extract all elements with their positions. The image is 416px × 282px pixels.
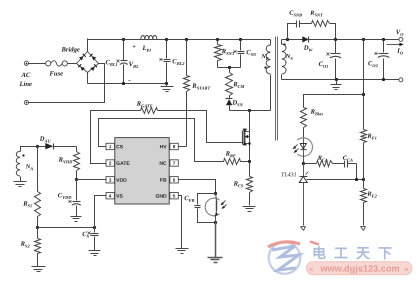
svg-text:AC: AC	[20, 72, 30, 79]
resistor R_F2	[361, 180, 367, 226]
pin numbers U1	[109, 144, 176, 198]
diode D_AU	[38, 143, 77, 150]
svg-text:7: 7	[173, 161, 176, 166]
diode D_SN	[226, 99, 233, 111]
node ref C_CA	[355, 178, 358, 181]
wire clamp to drain node	[230, 110, 271, 112]
polarity dot secondary	[283, 43, 285, 45]
node opto collector	[214, 192, 217, 195]
label N_S	[285, 53, 294, 61]
ground R_S2	[32, 267, 46, 272]
svg-text:www.dgjs123.com: www.dgjs123.com	[319, 264, 399, 274]
capacitor C_VDD	[69, 180, 81, 217]
label C_VDD	[58, 192, 73, 200]
svg-text:3: 3	[109, 178, 112, 183]
node feedback tap on Vo rail	[362, 38, 365, 41]
svg-text:Bridge: Bridge	[60, 46, 79, 53]
capacitor C_FB	[195, 194, 216, 223]
resistor R_S2	[35, 228, 41, 267]
ground C_VDD	[71, 217, 82, 222]
label R_S1	[22, 201, 32, 209]
svg-text:GND: GND	[155, 194, 167, 200]
label N_A	[25, 163, 34, 171]
output terminal Vo	[399, 37, 403, 41]
capacitor C_CA	[333, 161, 357, 168]
label R_SNT	[221, 48, 235, 56]
node opto emitter	[214, 221, 217, 224]
node aux	[36, 145, 39, 148]
node C_BL2 top	[165, 38, 168, 41]
label R_F1	[366, 133, 376, 141]
node C_O2 top	[382, 38, 385, 41]
label Fuse	[49, 71, 63, 78]
resistor R_SNT	[215, 40, 222, 68]
wire VS to pin4	[95, 196, 107, 228]
secondary winding N_S	[282, 40, 287, 80]
node C_BL2 bottom	[165, 82, 168, 85]
label V_BL	[129, 61, 139, 69]
wire secondary ground rail	[282, 79, 400, 81]
node C_SN top	[239, 38, 242, 41]
resistor R_CM	[226, 68, 233, 99]
node gnd rail C_O2	[382, 78, 385, 81]
label C_S	[82, 231, 89, 239]
node C_BL1 top	[122, 38, 125, 41]
label C_BL1	[105, 59, 117, 67]
resistor R_VDD	[74, 147, 80, 180]
ground R_CS	[243, 207, 256, 212]
svg-text:»: »	[404, 265, 409, 274]
wire feedback tap	[363, 40, 365, 130]
wire TL431 ref line	[307, 179, 364, 181]
node divider mid	[362, 178, 365, 181]
resistor R_CA	[304, 161, 333, 167]
svg-text:4: 4	[109, 193, 112, 198]
resistor R_F1	[361, 130, 367, 180]
label C_FB	[184, 195, 194, 203]
label D_AU	[39, 136, 52, 144]
wire gate lead	[236, 142, 243, 144]
label R_CS	[233, 181, 244, 189]
label C_SNB	[289, 10, 302, 18]
svg-text:8: 8	[173, 144, 176, 149]
label R_VDD	[58, 157, 74, 165]
wire CS staircase	[99, 119, 224, 162]
diode D_W	[302, 36, 308, 42]
label C_BL2	[172, 58, 185, 66]
wire secondary top	[282, 40, 303, 45]
wire bridge top corner to DC+ rail	[87, 39, 89, 52]
label R_CA	[317, 155, 328, 163]
label R_RF	[225, 151, 236, 159]
wire VDD to pin3	[77, 179, 107, 181]
label R_F2	[366, 191, 377, 199]
svg-text:Fuse: Fuse	[49, 71, 63, 78]
label R_Bias	[310, 109, 324, 117]
label C_O2	[368, 60, 379, 68]
label AC Line	[18, 72, 32, 88]
AC line terminal upper	[24, 61, 28, 65]
node LED cathode	[302, 162, 305, 165]
svg-text:2: 2	[109, 161, 112, 166]
wire bridge right corner to AC2	[29, 64, 105, 103]
ground input rail	[161, 84, 174, 92]
svg-text:HV: HV	[160, 144, 168, 150]
wire R_START to HV pin8	[179, 146, 187, 148]
node drain	[248, 109, 251, 112]
node C_BL1 bottom	[122, 82, 125, 85]
label V_O	[396, 29, 404, 37]
polarity dot primary	[264, 66, 266, 68]
node VS divider	[36, 226, 39, 229]
node gnd rail C_O1	[335, 78, 338, 81]
bridge rectifier BR1	[77, 52, 99, 73]
svg-text:+: +	[132, 44, 136, 51]
shunt regulator TL431	[299, 164, 308, 226]
label R_START	[191, 83, 210, 91]
ground TL431	[301, 227, 306, 231]
wire C_CA down	[356, 164, 358, 180]
resistor R_CS	[247, 162, 253, 206]
label Bridge	[60, 46, 79, 53]
label L_PI	[141, 45, 151, 53]
output terminal return	[399, 78, 403, 82]
svg-text:FB: FB	[160, 178, 167, 184]
wire GND pin to ground	[179, 196, 182, 249]
wire R_GATE to gate	[158, 111, 236, 143]
capacitor C_O1	[327, 40, 342, 80]
svg-text:«: «	[309, 265, 314, 274]
wire bridge bottom corner down	[87, 73, 89, 84]
AC line terminal lower	[24, 100, 28, 104]
optocoupler LED U2a	[293, 138, 313, 164]
resistor R_RF	[224, 159, 241, 165]
ground N_A	[14, 182, 27, 187]
label D_W	[303, 45, 314, 53]
capacitor C_BL1	[117, 40, 128, 84]
label plus	[132, 44, 136, 51]
wire AC line top to fuse	[29, 63, 46, 65]
svg-text:电工天下: 电工天下	[312, 245, 400, 261]
svg-text:VDD: VDD	[116, 178, 127, 184]
label C_CA	[343, 155, 353, 163]
watermark dgjs123	[268, 242, 412, 275]
label minus	[128, 75, 131, 84]
label TL431	[281, 171, 297, 178]
inductor L_PI	[141, 35, 157, 39]
node snubber left	[286, 38, 289, 41]
wire clamp bottom	[218, 67, 241, 69]
svg-text:NC: NC	[159, 161, 167, 167]
svg-text:5: 5	[173, 193, 176, 198]
ground IC GND	[176, 249, 189, 254]
capacitor C_BL2	[160, 40, 171, 84]
svg-text:Line: Line	[18, 81, 32, 88]
svg-text:GATE: GATE	[116, 161, 130, 167]
ground opto emitter	[208, 258, 223, 263]
capacitor C_O2	[375, 40, 390, 80]
node VDD	[75, 178, 78, 181]
fuse F1	[46, 61, 68, 66]
node C_O1 top	[334, 38, 337, 41]
svg-text:6: 6	[173, 178, 176, 183]
capacitor C_SN	[234, 40, 245, 68]
primary winding N_P	[266, 40, 270, 111]
label D_SN	[231, 100, 243, 108]
node clamp mid	[228, 66, 231, 69]
wire top DC+ rail	[88, 39, 271, 41]
wire FB pin to opto collector	[179, 180, 216, 194]
svg-text:TL431: TL431	[281, 171, 297, 178]
polarity dot aux	[22, 154, 24, 156]
wire drain vertical	[249, 111, 251, 162]
node C_S top	[93, 226, 96, 229]
resistor R_GATE	[141, 108, 158, 114]
wire R_RF to source	[241, 161, 250, 163]
node R_SNT top	[216, 38, 219, 41]
transistor Q1 MOSFET	[243, 129, 251, 146]
ground R_F2	[361, 227, 366, 231]
wire GATE staircase	[91, 111, 141, 164]
svg-text:VS: VS	[116, 194, 123, 200]
label R_S2	[20, 241, 31, 249]
label C_SN	[246, 49, 257, 57]
label R_GATE	[136, 101, 153, 109]
wire VS line	[38, 227, 95, 229]
op-amp U1 PWM controller body	[106, 138, 178, 204]
resistor R_Bias	[301, 108, 307, 139]
svg-text:CS: CS	[116, 144, 124, 150]
label N_P	[260, 53, 269, 61]
label I_O	[396, 48, 404, 56]
label R_SNB	[309, 10, 323, 18]
ground secondary	[331, 80, 342, 90]
transformer core	[276, 37, 278, 141]
ground C_S	[89, 251, 101, 256]
label R_CM	[232, 81, 245, 89]
resistor R_START	[184, 40, 190, 147]
node feed tap	[362, 93, 365, 96]
label C_O1	[319, 61, 329, 69]
svg-text:1: 1	[109, 144, 112, 149]
optocoupler phototransistor U2b	[205, 194, 226, 217]
wire fuse to bridge	[68, 63, 77, 65]
node R_START top	[185, 38, 188, 41]
winding N_A	[16, 151, 20, 181]
wire emitter to ground	[215, 217, 217, 258]
wire N_A top	[21, 147, 38, 152]
wire bottom DC- rail	[88, 83, 167, 85]
pin labels U1	[116, 144, 167, 199]
resistor R_S1	[35, 147, 41, 228]
arrow I_O	[387, 43, 404, 47]
wire Vo rail	[309, 39, 400, 41]
wire feed line	[304, 95, 364, 108]
node source	[248, 160, 251, 163]
capacitor C_S	[88, 228, 99, 251]
snubber C_SNB R_SNB	[288, 21, 336, 40]
